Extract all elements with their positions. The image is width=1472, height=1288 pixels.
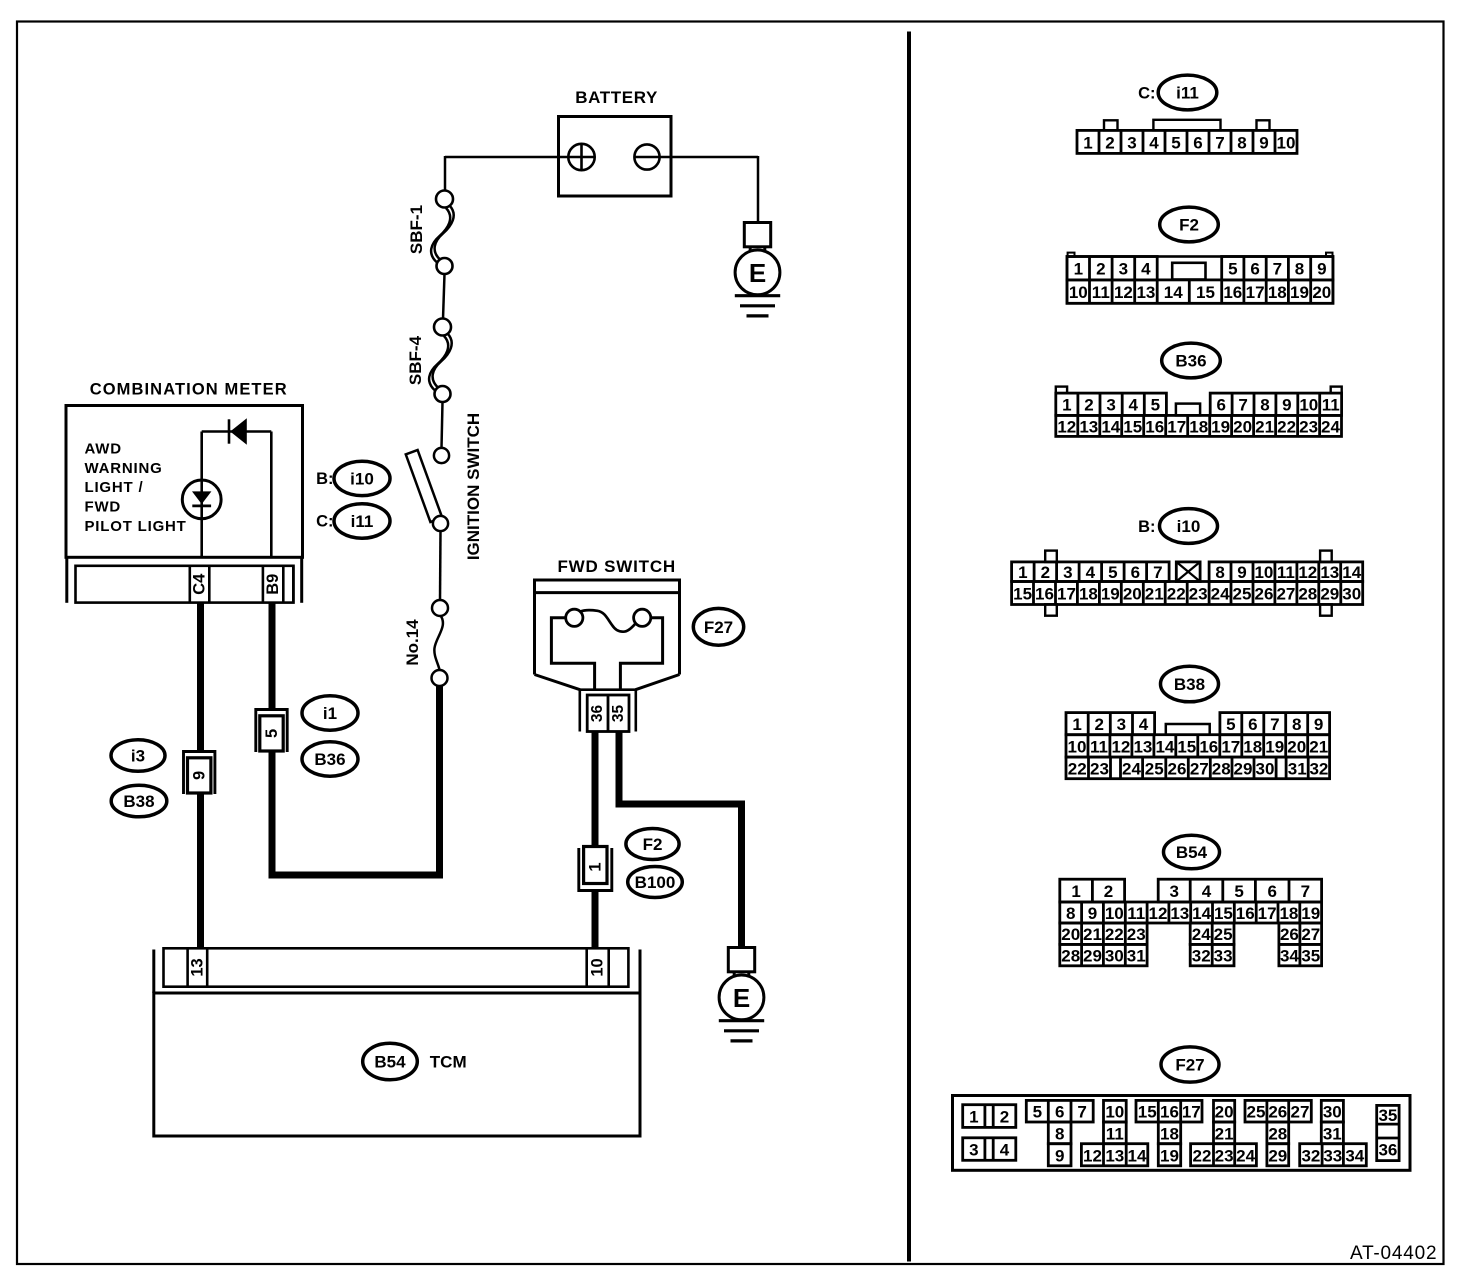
svg-text:E: E xyxy=(749,258,766,288)
svg-text:COMBINATION METER: COMBINATION METER xyxy=(90,380,288,398)
svg-text:9: 9 xyxy=(1314,715,1323,734)
svg-text:27: 27 xyxy=(1276,585,1295,604)
svg-text:FWD: FWD xyxy=(85,499,122,516)
svg-text:32: 32 xyxy=(1192,947,1211,966)
svg-text:3: 3 xyxy=(1117,715,1126,734)
svg-text:4: 4 xyxy=(1202,882,1212,901)
svg-text:21: 21 xyxy=(1215,1124,1234,1143)
svg-text:5: 5 xyxy=(1171,133,1180,152)
svg-text:SBF-1: SBF-1 xyxy=(407,205,426,254)
svg-text:B:: B: xyxy=(316,470,333,488)
svg-text:9: 9 xyxy=(1259,133,1268,152)
svg-text:3: 3 xyxy=(1119,260,1128,279)
svg-text:B54: B54 xyxy=(1176,843,1208,862)
svg-text:1: 1 xyxy=(1018,563,1027,582)
svg-text:2: 2 xyxy=(1096,260,1105,279)
svg-text:15: 15 xyxy=(1214,904,1233,923)
svg-text:34: 34 xyxy=(1280,947,1299,966)
svg-text:1: 1 xyxy=(1072,715,1081,734)
svg-text:11: 11 xyxy=(1092,283,1110,302)
svg-text:10: 10 xyxy=(589,958,607,976)
svg-text:22: 22 xyxy=(1105,925,1124,944)
svg-text:14: 14 xyxy=(1155,737,1174,756)
svg-text:20: 20 xyxy=(1233,417,1252,436)
svg-text:14: 14 xyxy=(1164,283,1183,302)
svg-text:i3: i3 xyxy=(131,747,145,766)
svg-text:28: 28 xyxy=(1268,1124,1287,1143)
svg-text:F2: F2 xyxy=(1179,216,1199,235)
svg-text:10: 10 xyxy=(1277,133,1296,152)
svg-text:29: 29 xyxy=(1083,947,1102,966)
svg-text:36: 36 xyxy=(589,705,606,723)
svg-text:18: 18 xyxy=(1189,417,1208,436)
svg-text:23: 23 xyxy=(1189,585,1208,604)
svg-text:26: 26 xyxy=(1255,585,1274,604)
svg-text:2: 2 xyxy=(1041,563,1050,582)
svg-text:11: 11 xyxy=(1106,1124,1124,1143)
svg-text:5: 5 xyxy=(1228,260,1237,279)
svg-text:16: 16 xyxy=(1035,585,1054,604)
svg-text:27: 27 xyxy=(1291,1103,1310,1122)
svg-text:14: 14 xyxy=(1192,904,1211,923)
svg-text:4: 4 xyxy=(1086,563,1096,582)
svg-text:4: 4 xyxy=(1149,133,1159,152)
svg-text:2: 2 xyxy=(1000,1108,1009,1127)
svg-text:31: 31 xyxy=(1288,759,1307,778)
svg-text:7: 7 xyxy=(1301,882,1310,901)
svg-text:6: 6 xyxy=(1248,715,1257,734)
svg-text:23: 23 xyxy=(1090,759,1109,778)
svg-text:11: 11 xyxy=(1127,904,1145,923)
svg-text:11: 11 xyxy=(1322,396,1340,415)
svg-text:B36: B36 xyxy=(314,750,345,769)
svg-text:2: 2 xyxy=(1105,133,1114,152)
svg-text:17: 17 xyxy=(1057,585,1076,604)
svg-text:B38: B38 xyxy=(123,792,154,811)
svg-text:SBF-4: SBF-4 xyxy=(406,335,425,385)
svg-text:15: 15 xyxy=(1138,1103,1157,1122)
svg-text:2: 2 xyxy=(1084,396,1093,415)
svg-text:29: 29 xyxy=(1268,1146,1287,1165)
svg-text:1: 1 xyxy=(969,1108,978,1127)
svg-text:7: 7 xyxy=(1273,260,1282,279)
svg-text:16: 16 xyxy=(1199,737,1218,756)
svg-text:1: 1 xyxy=(1083,133,1092,152)
svg-text:C4: C4 xyxy=(191,573,209,595)
svg-text:1: 1 xyxy=(1071,882,1080,901)
svg-text:i11: i11 xyxy=(351,512,374,531)
svg-text:24: 24 xyxy=(1236,1146,1255,1165)
svg-text:17: 17 xyxy=(1182,1103,1201,1122)
svg-text:18: 18 xyxy=(1079,585,1098,604)
svg-text:16: 16 xyxy=(1145,417,1164,436)
svg-text:19: 19 xyxy=(1101,585,1120,604)
svg-text:5: 5 xyxy=(1151,396,1160,415)
svg-text:21: 21 xyxy=(1083,925,1102,944)
svg-text:6: 6 xyxy=(1267,882,1276,901)
svg-text:35: 35 xyxy=(1378,1106,1397,1125)
svg-text:B9: B9 xyxy=(264,574,282,595)
svg-text:16: 16 xyxy=(1223,283,1242,302)
svg-text:B:: B: xyxy=(1138,518,1155,536)
svg-text:25: 25 xyxy=(1247,1103,1266,1122)
svg-text:25: 25 xyxy=(1233,585,1252,604)
svg-text:32: 32 xyxy=(1301,1146,1320,1165)
svg-text:11: 11 xyxy=(1277,563,1295,582)
svg-text:28: 28 xyxy=(1212,759,1231,778)
svg-text:23: 23 xyxy=(1215,1146,1234,1165)
svg-text:20: 20 xyxy=(1061,925,1080,944)
svg-text:2: 2 xyxy=(1104,882,1113,901)
svg-text:7: 7 xyxy=(1215,133,1224,152)
svg-text:32: 32 xyxy=(1309,759,1328,778)
svg-text:6: 6 xyxy=(1216,396,1225,415)
svg-text:AT-04402: AT-04402 xyxy=(1350,1243,1437,1264)
svg-text:19: 19 xyxy=(1265,737,1284,756)
svg-text:i10: i10 xyxy=(1177,517,1201,536)
svg-text:25: 25 xyxy=(1145,759,1164,778)
svg-text:6: 6 xyxy=(1055,1103,1064,1122)
svg-text:30: 30 xyxy=(1105,947,1124,966)
svg-text:16: 16 xyxy=(1160,1103,1179,1122)
svg-text:15: 15 xyxy=(1013,585,1032,604)
svg-text:1: 1 xyxy=(1062,396,1071,415)
svg-text:6: 6 xyxy=(1250,260,1259,279)
svg-text:8: 8 xyxy=(1215,563,1224,582)
svg-text:33: 33 xyxy=(1323,1146,1342,1165)
svg-text:36: 36 xyxy=(1378,1141,1397,1160)
svg-text:B38: B38 xyxy=(1174,675,1205,694)
svg-text:i10: i10 xyxy=(350,469,374,488)
svg-text:FWD SWITCH: FWD SWITCH xyxy=(558,557,676,576)
svg-text:PILOT LIGHT: PILOT LIGHT xyxy=(85,518,187,535)
svg-text:7: 7 xyxy=(1153,563,1162,582)
svg-text:LIGHT /: LIGHT / xyxy=(85,479,144,496)
svg-text:21: 21 xyxy=(1145,585,1164,604)
svg-text:9: 9 xyxy=(1088,904,1097,923)
svg-text:22: 22 xyxy=(1277,417,1296,436)
svg-text:30: 30 xyxy=(1256,759,1275,778)
svg-text:27: 27 xyxy=(1190,759,1209,778)
svg-text:19: 19 xyxy=(1160,1146,1179,1165)
svg-text:15: 15 xyxy=(1196,283,1215,302)
svg-text:4: 4 xyxy=(1000,1141,1010,1160)
svg-text:12: 12 xyxy=(1111,737,1130,756)
svg-text:10: 10 xyxy=(1105,1103,1124,1122)
svg-text:17: 17 xyxy=(1221,737,1240,756)
svg-text:13: 13 xyxy=(1170,904,1189,923)
svg-text:26: 26 xyxy=(1280,925,1299,944)
svg-text:9: 9 xyxy=(1282,396,1291,415)
svg-text:20: 20 xyxy=(1215,1103,1234,1122)
svg-text:12: 12 xyxy=(1083,1146,1102,1165)
svg-text:7: 7 xyxy=(1077,1103,1086,1122)
svg-text:35: 35 xyxy=(610,705,627,723)
svg-text:13: 13 xyxy=(1079,417,1098,436)
svg-text:24: 24 xyxy=(1321,417,1340,436)
svg-text:34: 34 xyxy=(1345,1146,1364,1165)
svg-text:3: 3 xyxy=(1106,396,1115,415)
svg-text:30: 30 xyxy=(1323,1103,1342,1122)
svg-text:28: 28 xyxy=(1298,585,1317,604)
svg-text:5: 5 xyxy=(1226,715,1235,734)
svg-text:14: 14 xyxy=(1342,563,1361,582)
svg-text:10: 10 xyxy=(1105,904,1124,923)
svg-text:4: 4 xyxy=(1128,396,1138,415)
svg-text:35: 35 xyxy=(1301,947,1320,966)
svg-text:9: 9 xyxy=(1055,1146,1064,1165)
svg-text:24: 24 xyxy=(1122,759,1141,778)
svg-text:17: 17 xyxy=(1258,904,1277,923)
svg-text:5: 5 xyxy=(1033,1103,1042,1122)
svg-text:22: 22 xyxy=(1193,1146,1212,1165)
svg-text:15: 15 xyxy=(1177,737,1196,756)
svg-text:6: 6 xyxy=(1193,133,1202,152)
svg-text:3: 3 xyxy=(1063,563,1072,582)
svg-text:3: 3 xyxy=(969,1141,978,1160)
svg-text:8: 8 xyxy=(1260,396,1269,415)
svg-text:22: 22 xyxy=(1068,759,1087,778)
svg-text:21: 21 xyxy=(1255,417,1274,436)
svg-text:F27: F27 xyxy=(1175,1056,1204,1075)
svg-text:No.14: No.14 xyxy=(403,619,422,666)
svg-text:13: 13 xyxy=(1133,737,1152,756)
svg-text:20: 20 xyxy=(1312,283,1331,302)
svg-text:10: 10 xyxy=(1299,396,1318,415)
svg-text:C:: C: xyxy=(316,512,333,530)
svg-text:24: 24 xyxy=(1192,925,1211,944)
svg-text:18: 18 xyxy=(1160,1124,1179,1143)
svg-text:19: 19 xyxy=(1211,417,1230,436)
svg-text:10: 10 xyxy=(1069,283,1088,302)
svg-text:8: 8 xyxy=(1292,715,1301,734)
svg-text:6: 6 xyxy=(1131,563,1140,582)
svg-text:B100: B100 xyxy=(635,873,676,892)
svg-text:B54: B54 xyxy=(374,1053,406,1072)
svg-text:17: 17 xyxy=(1167,417,1186,436)
svg-text:14: 14 xyxy=(1128,1146,1147,1165)
svg-text:C:: C: xyxy=(1138,84,1155,102)
svg-text:3: 3 xyxy=(1169,882,1178,901)
svg-text:19: 19 xyxy=(1290,283,1309,302)
svg-text:WARNING: WARNING xyxy=(85,460,163,477)
svg-text:12: 12 xyxy=(1149,904,1168,923)
svg-text:13: 13 xyxy=(1136,283,1155,302)
svg-text:8: 8 xyxy=(1055,1124,1064,1143)
svg-text:2: 2 xyxy=(1094,715,1103,734)
svg-text:18: 18 xyxy=(1279,904,1298,923)
svg-text:5: 5 xyxy=(1234,882,1243,901)
svg-text:7: 7 xyxy=(1238,396,1247,415)
svg-text:E: E xyxy=(733,983,750,1013)
svg-text:TCM: TCM xyxy=(430,1053,467,1072)
svg-text:30: 30 xyxy=(1342,585,1361,604)
svg-text:26: 26 xyxy=(1268,1103,1287,1122)
svg-text:31: 31 xyxy=(1323,1124,1342,1143)
svg-text:17: 17 xyxy=(1246,283,1265,302)
svg-text:18: 18 xyxy=(1243,737,1262,756)
svg-text:8: 8 xyxy=(1237,133,1246,152)
svg-text:25: 25 xyxy=(1214,925,1233,944)
svg-text:15: 15 xyxy=(1123,417,1142,436)
svg-text:9: 9 xyxy=(1317,260,1326,279)
svg-text:11: 11 xyxy=(1090,737,1108,756)
svg-text:26: 26 xyxy=(1168,759,1187,778)
svg-text:19: 19 xyxy=(1301,904,1320,923)
svg-text:21: 21 xyxy=(1309,737,1328,756)
svg-text:7: 7 xyxy=(1270,715,1279,734)
svg-text:1: 1 xyxy=(587,862,605,871)
svg-text:1: 1 xyxy=(1074,260,1083,279)
svg-text:10: 10 xyxy=(1068,737,1087,756)
svg-text:i11: i11 xyxy=(1176,84,1199,103)
svg-text:29: 29 xyxy=(1320,585,1339,604)
svg-text:9: 9 xyxy=(1237,563,1246,582)
svg-text:12: 12 xyxy=(1298,563,1317,582)
svg-text:13: 13 xyxy=(1105,1146,1124,1165)
svg-text:4: 4 xyxy=(1139,715,1149,734)
svg-text:5: 5 xyxy=(263,729,281,738)
svg-text:24: 24 xyxy=(1211,585,1230,604)
svg-text:F27: F27 xyxy=(704,618,733,637)
svg-text:8: 8 xyxy=(1295,260,1304,279)
svg-text:27: 27 xyxy=(1301,925,1320,944)
svg-text:5: 5 xyxy=(1108,563,1117,582)
svg-text:20: 20 xyxy=(1287,737,1306,756)
svg-text:IGNITION SWITCH: IGNITION SWITCH xyxy=(464,413,483,560)
svg-text:3: 3 xyxy=(1127,133,1136,152)
svg-text:i1: i1 xyxy=(323,704,337,723)
svg-text:13: 13 xyxy=(1320,563,1339,582)
svg-text:12: 12 xyxy=(1057,417,1076,436)
svg-text:23: 23 xyxy=(1299,417,1318,436)
svg-text:23: 23 xyxy=(1127,925,1146,944)
svg-text:22: 22 xyxy=(1167,585,1186,604)
svg-text:10: 10 xyxy=(1254,563,1273,582)
svg-text:18: 18 xyxy=(1268,283,1287,302)
svg-text:12: 12 xyxy=(1114,283,1133,302)
svg-text:AWD: AWD xyxy=(85,441,122,458)
svg-text:29: 29 xyxy=(1234,759,1253,778)
svg-text:9: 9 xyxy=(191,771,209,780)
svg-text:8: 8 xyxy=(1066,904,1075,923)
svg-text:28: 28 xyxy=(1061,947,1080,966)
svg-text:B36: B36 xyxy=(1175,352,1206,371)
svg-text:13: 13 xyxy=(188,958,206,976)
svg-text:33: 33 xyxy=(1214,947,1233,966)
svg-text:F2: F2 xyxy=(643,835,663,854)
svg-text:BATTERY: BATTERY xyxy=(575,88,658,107)
svg-text:4: 4 xyxy=(1141,260,1151,279)
svg-text:31: 31 xyxy=(1127,947,1146,966)
svg-text:14: 14 xyxy=(1101,417,1120,436)
svg-text:20: 20 xyxy=(1123,585,1142,604)
svg-text:16: 16 xyxy=(1236,904,1255,923)
